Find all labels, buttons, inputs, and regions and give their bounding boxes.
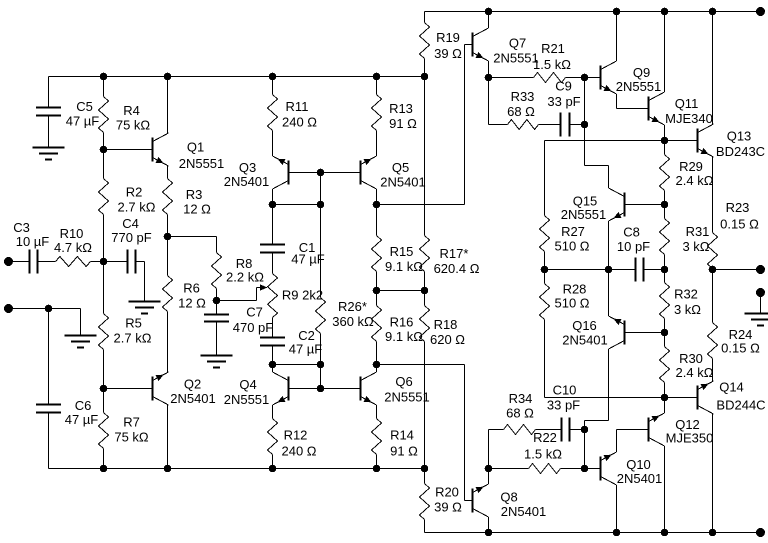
svg-text:Q3: Q3 [239, 160, 256, 175]
node R26 bottom [317, 361, 325, 369]
capacitor C6 [36, 398, 98, 469]
wire Q4 collector [272, 365, 274, 373]
node R8-C7 junction [213, 297, 221, 305]
svg-text:R6: R6 [183, 281, 200, 296]
resistor R27 [540, 216, 590, 270]
transistor Q6 [360, 372, 430, 405]
wire node row 269 [545, 269, 609, 271]
svg-text:Q8: Q8 [500, 490, 517, 505]
svg-text:BD244C: BD244C [716, 398, 765, 413]
svg-text:2N5401: 2N5401 [501, 504, 547, 519]
svg-text:R28: R28 [563, 282, 587, 297]
node R3-R6-R8 junction [164, 233, 172, 241]
transistor Q9 [600, 61, 662, 94]
svg-text:0.15 Ω: 0.15 Ω [720, 217, 759, 232]
resistor R6 [163, 237, 207, 373]
svg-text:Q7: Q7 [509, 36, 526, 51]
resistor R4 [99, 77, 151, 150]
svg-text:C6: C6 [75, 398, 92, 413]
svg-text:0.15 Ω: 0.15 Ω [721, 341, 760, 356]
svg-text:R20: R20 [435, 485, 459, 500]
resistor R15 [372, 205, 424, 291]
node rail-Q9 [613, 8, 621, 16]
svg-text:2.7 kΩ: 2.7 kΩ [114, 331, 152, 346]
resistor R12 [268, 405, 317, 469]
node rail-R14 [373, 465, 381, 473]
wire Q5 collector [376, 189, 378, 205]
transistor Q1 [152, 133, 225, 171]
node -V rail endpoint [756, 528, 765, 537]
svg-text:4.7 kΩ: 4.7 kΩ [54, 240, 92, 255]
node rail-R7 [100, 465, 108, 473]
capacitor C4 [104, 216, 152, 302]
svg-text:68 Ω: 68 Ω [506, 406, 534, 421]
wire collector node row left [273, 204, 321, 206]
wire Q12 collector [664, 446, 666, 533]
wire bias row to R27 [544, 141, 546, 216]
capacitor C10 [547, 383, 585, 442]
ground below C4 [129, 302, 161, 314]
resistor R18 [420, 291, 466, 469]
svg-text:R21: R21 [541, 41, 565, 56]
resistor R20 [420, 469, 463, 533]
node +V rail endpoint [756, 7, 765, 16]
svg-text:2N5551: 2N5551 [561, 207, 607, 222]
svg-text:R27: R27 [561, 224, 585, 239]
svg-text:33 pF: 33 pF [547, 94, 580, 109]
wire front-end negative rail (left bottom) [49, 468, 425, 470]
wire Q13 collector [712, 12, 714, 125]
wire Q3-Q5 base link [290, 172, 360, 174]
node R4-R2 junction (Q1 base) [100, 146, 108, 154]
resistor R29 [660, 141, 714, 205]
svg-text:MJE340: MJE340 [665, 111, 713, 126]
input terminal 1 [4, 257, 13, 266]
resistor R16 [372, 291, 424, 365]
resistor R30 [660, 333, 714, 398]
node rail-R13 [373, 73, 381, 81]
wire Q9 emitter to Q11 base [617, 94, 648, 109]
node R27-R28 [541, 266, 549, 274]
svg-text:Q11: Q11 [675, 96, 699, 111]
svg-text:R34: R34 [509, 391, 533, 406]
svg-text:Q16: Q16 [572, 318, 597, 333]
resistor R32 [660, 270, 702, 333]
resistor R28 [540, 270, 590, 398]
arrow R9 wiper [260, 284, 268, 290]
ground input 2 [65, 336, 97, 348]
wire Q9 collector [616, 12, 618, 62]
capacitor C3 [9, 220, 56, 274]
node R15-R16 [373, 287, 381, 295]
node front rail - R20 [421, 465, 429, 473]
wire Q10 base [585, 468, 600, 470]
ground below C7 [201, 356, 233, 368]
svg-text:620.4 Ω: 620.4 Ω [434, 261, 480, 276]
wire Q4-Q6 base link [290, 388, 360, 390]
node Q4 collector [269, 361, 277, 369]
wire R26 bottom to base link [320, 365, 322, 389]
resistor R14 [372, 405, 419, 469]
svg-text:47 µF: 47 µF [65, 412, 99, 427]
transistor Q5 [360, 156, 426, 190]
potentiometer R9 [268, 274, 324, 318]
svg-text:R30: R30 [679, 351, 703, 366]
svg-text:2.4 kΩ: 2.4 kΩ [676, 365, 714, 380]
svg-text:R29: R29 [679, 159, 703, 174]
node R26 top [317, 201, 325, 209]
capacitor C5 [36, 77, 99, 148]
node rail-Q12 [661, 529, 669, 537]
svg-text:Q6: Q6 [395, 374, 412, 389]
node Q11 emitter junction [661, 137, 669, 145]
svg-text:Q2: Q2 [184, 377, 201, 392]
node rail-R4 [100, 73, 108, 81]
wire Q12 emitter [664, 398, 666, 414]
wire output drive row [545, 397, 697, 399]
svg-text:Q4: Q4 [239, 377, 256, 392]
wire mirror node row right [377, 364, 465, 366]
node Q3 collector [269, 201, 277, 209]
node R32-R30 (Q16 base) [661, 329, 669, 337]
wire mirror node row left [273, 364, 321, 366]
node Q4-Q6 base junction [317, 385, 325, 393]
svg-text:R2: R2 [126, 185, 143, 200]
input terminal 2 [4, 304, 13, 313]
transistor Q3 [224, 156, 290, 189]
svg-text:47 µF: 47 µF [66, 114, 100, 129]
svg-text:2N5401: 2N5401 [617, 471, 663, 486]
svg-text:BD243C: BD243C [716, 144, 765, 159]
svg-text:R5: R5 [125, 316, 142, 331]
wire R15-R17 link [377, 290, 425, 292]
svg-text:2N5551: 2N5551 [384, 390, 430, 405]
svg-text:C7: C7 [246, 305, 263, 320]
svg-text:R10: R10 [60, 226, 84, 241]
svg-text:12 Ω: 12 Ω [183, 202, 211, 217]
svg-text:91 Ω: 91 Ω [389, 116, 417, 131]
node R22 junction [581, 465, 589, 473]
svg-text:Q9: Q9 [633, 65, 650, 80]
svg-text:R11: R11 [286, 99, 309, 114]
transistor Q15 [561, 188, 626, 222]
wire Q16 emitter [608, 270, 610, 317]
wire front-end positive rail (left section) [49, 76, 425, 78]
wire Q15 collector run [585, 125, 609, 189]
ground below C5 [33, 148, 65, 160]
node R31-R32 (C8) [661, 266, 669, 274]
svg-text:2.7 kΩ: 2.7 kΩ [118, 200, 156, 215]
wire Q15 base [626, 204, 665, 206]
transistor Q12 [648, 413, 714, 446]
wire Q16 collector run [585, 349, 609, 430]
wire Q1 base [104, 149, 152, 151]
svg-text:R32: R32 [674, 287, 698, 302]
svg-text:R13: R13 [389, 101, 413, 116]
node rail-R12 [269, 465, 277, 473]
svg-text:R14: R14 [390, 428, 414, 443]
svg-text:68 Ω: 68 Ω [507, 104, 535, 119]
transistor Q4 [224, 372, 290, 407]
wire -V supply rail (bottom, right section) [425, 532, 761, 534]
svg-text:360 kΩ: 360 kΩ [332, 314, 374, 329]
svg-text:2.2 kΩ: 2.2 kΩ [226, 270, 264, 285]
capacitor C8 [609, 225, 665, 282]
svg-text:2N5551: 2N5551 [179, 156, 225, 171]
svg-text:2N5401: 2N5401 [224, 174, 270, 189]
resistor R5 [99, 262, 152, 389]
node R30 bottom (Q14 base row) [661, 394, 669, 402]
svg-text:39 Ω: 39 Ω [434, 500, 462, 515]
node Q5 collector [373, 201, 381, 209]
svg-text:Q13: Q13 [727, 129, 752, 144]
svg-text:2.4 kΩ: 2.4 kΩ [676, 173, 714, 188]
resistor R24 [708, 270, 761, 382]
resistor R3 [163, 166, 212, 237]
transistor Q2 [152, 372, 216, 406]
svg-text:240 Ω: 240 Ω [281, 444, 316, 459]
node Q6 collector [373, 361, 381, 369]
resistor R22 [489, 430, 585, 474]
capacitor C9 [547, 79, 584, 137]
resistor R11 [268, 77, 318, 157]
svg-text:10 pF: 10 pF [617, 239, 650, 254]
svg-text:C8: C8 [623, 225, 640, 240]
wire collector node row right [377, 204, 465, 206]
wire Q11 emitter [664, 125, 666, 141]
transistor Q7 [472, 28, 539, 66]
svg-text:Q14: Q14 [719, 380, 744, 395]
wire Q8 collector [488, 517, 490, 533]
node R5-R7 junction (Q2 base) [100, 385, 108, 393]
capacitor C1 [260, 205, 325, 274]
wire R9 wiper [217, 288, 263, 301]
wire Q6 collector [376, 365, 378, 373]
resistor R2 [99, 150, 156, 262]
wire Q9 base [585, 77, 600, 79]
resistor R21 [489, 41, 585, 83]
svg-text:C4: C4 [122, 216, 139, 231]
wire C10 node down [584, 430, 586, 469]
resistor R31 [660, 205, 710, 270]
svg-text:Q5: Q5 [392, 160, 409, 175]
svg-text:770 pF: 770 pF [111, 230, 152, 245]
node Q8 emitter junction [485, 465, 493, 473]
wire Q3 collector [272, 189, 274, 205]
node VAS input node [605, 266, 613, 274]
svg-text:R7: R7 [123, 415, 140, 430]
node R29-R31 (Q15 base) [661, 201, 669, 209]
svg-text:2N5401: 2N5401 [562, 333, 608, 348]
svg-text:R9 2k2: R9 2k2 [282, 288, 323, 303]
transistor Q13 [697, 124, 766, 159]
node Q7 emitter junction [485, 74, 493, 82]
wire Q10 collector [616, 485, 618, 533]
svg-text:2N5401: 2N5401 [380, 175, 426, 190]
svg-text:R26*: R26* [338, 299, 367, 314]
svg-text:9.1 kΩ: 9.1 kΩ [385, 259, 423, 274]
wire output [713, 269, 761, 271]
transistor Q16 [562, 316, 625, 349]
wire Q1 collector to rail [167, 77, 169, 134]
capacitor C7 [204, 301, 273, 356]
transistor Q10 [600, 452, 663, 486]
capacitor C2 [260, 318, 322, 365]
wire R21 node down [584, 78, 586, 125]
svg-text:75 kΩ: 75 kΩ [116, 118, 151, 133]
wire Q14 collector [712, 414, 714, 533]
resistor R26 [316, 205, 375, 365]
svg-text:R17*: R17* [440, 246, 469, 261]
resistor R23 [708, 157, 760, 270]
wire Q15 emitter [608, 221, 610, 270]
node rail-Q10 [613, 529, 621, 537]
svg-text:510 Ω: 510 Ω [554, 296, 589, 311]
svg-text:R12: R12 [284, 428, 308, 443]
wire base link down [320, 173, 322, 205]
resistor R34 [489, 391, 562, 469]
svg-text:MJE350: MJE350 [666, 431, 714, 446]
node rail-Q1 collector [164, 73, 172, 81]
output return terminal [756, 288, 765, 297]
svg-text:R19: R19 [436, 30, 460, 45]
wire input2 to C6 [48, 309, 50, 405]
node R17-R18 [421, 287, 429, 295]
output terminal [756, 265, 765, 274]
svg-text:91 Ω: 91 Ω [390, 444, 418, 459]
svg-text:3 kΩ: 3 kΩ [674, 302, 701, 317]
svg-text:12 Ω: 12 Ω [178, 296, 206, 311]
node rail-R11 [269, 73, 277, 81]
node rail-Q13 [709, 8, 717, 16]
svg-text:R23: R23 [726, 200, 750, 215]
resistor R13 [372, 77, 418, 157]
ground output [745, 314, 768, 326]
wire +V supply rail (top, right section) [425, 11, 761, 13]
svg-text:R3: R3 [186, 187, 203, 202]
svg-text:75 kΩ: 75 kΩ [114, 430, 149, 445]
wire Q7 collector [488, 12, 490, 29]
node input junction [100, 258, 108, 266]
node input 2 junction [45, 305, 53, 313]
wire input 2 [9, 309, 81, 336]
svg-text:240 Ω: 240 Ω [282, 115, 317, 130]
svg-text:47 µF: 47 µF [289, 342, 323, 357]
wire Q10 emitter to Q12 base [617, 430, 648, 453]
resistor R33 [489, 78, 561, 130]
svg-text:R22: R22 [533, 430, 557, 445]
svg-text:2N5551: 2N5551 [493, 51, 539, 66]
node C10 junction [581, 426, 589, 434]
svg-text:10 µF: 10 µF [16, 234, 50, 249]
svg-text:3 kΩ: 3 kΩ [682, 239, 709, 254]
node base link junction [317, 169, 325, 177]
svg-text:C3: C3 [13, 220, 30, 235]
svg-text:C10: C10 [553, 383, 577, 398]
resistor R8 [168, 237, 265, 301]
node R21-Q9 base [581, 74, 589, 82]
resistor R10 [54, 226, 103, 267]
svg-text:510 Ω: 510 Ω [554, 239, 589, 254]
svg-text:1.5 kΩ: 1.5 kΩ [524, 447, 562, 462]
wire Q16 base [626, 332, 665, 334]
wire bias row [545, 140, 665, 142]
svg-text:470 pF: 470 pF [233, 320, 274, 335]
resistor R7 [99, 389, 149, 469]
node C9 junction [581, 121, 589, 129]
svg-text:R31: R31 [686, 224, 710, 239]
wire Q7 base run [465, 45, 472, 205]
svg-text:9.1 kΩ: 9.1 kΩ [385, 329, 423, 344]
transistor Q11 [648, 92, 713, 126]
wire Q8 emitter [488, 469, 490, 485]
wire Q11 collector [664, 12, 666, 93]
node rail-Q7 [485, 8, 493, 16]
wire Q13 base [665, 140, 697, 142]
svg-text:Q1: Q1 [187, 140, 204, 155]
svg-text:2N5551: 2N5551 [616, 79, 662, 94]
svg-text:47 µF: 47 µF [291, 252, 325, 267]
node rail-Q11 [661, 8, 669, 16]
svg-text:2N5401: 2N5401 [170, 391, 216, 406]
svg-text:R15: R15 [390, 244, 414, 259]
wire Q8 base run [465, 365, 472, 501]
wire Q2 collector to rail [167, 405, 169, 469]
svg-text:2N5551: 2N5551 [224, 392, 270, 407]
node rail-Q14 [709, 529, 717, 537]
svg-text:R18: R18 [434, 317, 458, 332]
svg-text:C9: C9 [555, 79, 572, 94]
svg-text:C5: C5 [76, 99, 93, 114]
wire output ground [760, 293, 762, 314]
transistor Q8 [472, 484, 547, 519]
resistor R17 [420, 78, 480, 291]
resistor R19 [420, 12, 463, 77]
node front rail - R19 [421, 73, 429, 81]
svg-text:33 pF: 33 pF [547, 398, 580, 413]
svg-text:Q10: Q10 [626, 457, 651, 472]
svg-text:R16: R16 [390, 315, 414, 330]
node rail-Q8 [485, 529, 493, 537]
svg-text:R33: R33 [511, 89, 535, 104]
transistor Q14 [697, 380, 766, 415]
wire Q7 emitter [488, 61, 490, 78]
svg-text:1.5 kΩ: 1.5 kΩ [533, 57, 571, 72]
wire Q2 base [104, 388, 152, 390]
node rail-Q2 collector [164, 465, 172, 473]
svg-text:R4: R4 [123, 103, 140, 118]
svg-text:39 Ω: 39 Ω [434, 46, 462, 61]
svg-text:620 Ω: 620 Ω [430, 332, 465, 347]
node output node [709, 266, 717, 274]
